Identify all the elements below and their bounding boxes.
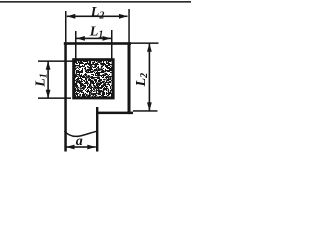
svg-text:a: a xyxy=(76,134,83,149)
